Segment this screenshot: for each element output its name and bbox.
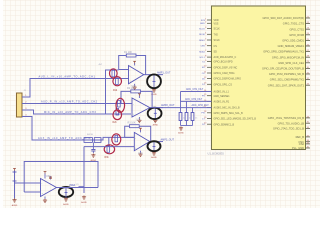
IC U1 right pin 28 (GPIO_SPI0_MISO/PCM_IN) bbox=[272, 55, 310, 59]
test point at U3A output bbox=[65, 188, 68, 198]
inverting input wire of U1B bbox=[121, 103, 132, 105]
IC U1 left pin 15 (GND_SENSE1) bbox=[202, 94, 230, 98]
op-amp U1B V- stub and ground bbox=[137, 117, 141, 123]
IC U1 right pin 26 (GND_SDRAM_VREF1) bbox=[278, 44, 310, 48]
IC U1 left pin 2 (VSS) bbox=[200, 22, 219, 26]
filter capacitor C2 bbox=[185, 101, 188, 125]
ground of filter network bbox=[179, 127, 183, 131]
svg-text:AMP2_OUT: AMP2_OUT bbox=[161, 104, 175, 107]
IC U1 left pin 18 (GPIO_SMPS_SDA_SCL_B) bbox=[201, 111, 243, 115]
IC U1 left pin 14 (AUDIO_IN_L1) bbox=[204, 90, 229, 94]
svg-text:GPIO_CTS1: GPIO_CTS1 bbox=[289, 27, 304, 31]
wire net ADC_CH1 to IC pin 14 bbox=[181, 91, 212, 93]
svg-text:GPIO_SD0_DAT_AUDIO_DOUT(R): GPIO_SD0_DAT_AUDIO_DOUT(R) bbox=[263, 16, 305, 20]
ground under U1C test point bbox=[152, 152, 156, 156]
svg-text:GPIO_PCM_FS/PWM1_SD_B: GPIO_PCM_FS/PWM1_SD_B bbox=[269, 72, 304, 76]
svg-text:GPIO_RX1B: GPIO_RX1B bbox=[289, 33, 304, 37]
connector J1 pin 1 stub bbox=[22, 96, 27, 98]
connector J1 pin 3 stub bbox=[22, 109, 27, 111]
svg-text:GPIO_SDMMC1_B: GPIO_SDMMC1_B bbox=[214, 123, 235, 126]
op-amp U1A triangle bbox=[129, 66, 144, 84]
IC U1 left pin 20 (GPIO_SDMMC1_B) bbox=[202, 123, 234, 127]
svg-text:ADC_CH1_FILT: ADC_CH1_FILT bbox=[186, 88, 204, 91]
svg-text:OS2: OS2 bbox=[299, 142, 305, 146]
feedback wire of U1B bbox=[121, 91, 131, 103]
red highlight ellipse at (116.3,139.4) bbox=[112, 134, 121, 145]
svg-text:SCLK: SCLK bbox=[199, 29, 205, 31]
output wire of U1A bbox=[144, 74, 163, 76]
black highlight ellipse at (66.0,192.0) bbox=[59, 187, 73, 197]
svg-text:AUX_IN_x10_AMP_TO_ADC_CH4: AUX_IN_x10_AMP_TO_ADC_CH4 bbox=[38, 137, 91, 140]
op-amp U1C V- stub and ground bbox=[138, 151, 142, 157]
wire vertical divider column bbox=[23, 183, 25, 192]
svg-text:R1 10K: R1 10K bbox=[124, 51, 132, 54]
ground under divider bbox=[12, 198, 16, 202]
svg-text:ADC_CH2_FILT: ADC_CH2_FILT bbox=[185, 98, 203, 101]
inverting input wire of U1A bbox=[119, 69, 129, 71]
svg-text:GPIO1_CAM_TRIG: GPIO1_CAM_TRIG bbox=[214, 72, 235, 75]
IC U1 left pin 7 (SD) bbox=[199, 50, 217, 54]
IC U1 right pin 22 (GPIO_TXD1_CTS) bbox=[283, 22, 310, 26]
red highlight ellipse at (120.3,105.3) bbox=[116, 98, 125, 112]
feedback wire of U1A bbox=[119, 56, 127, 70]
svg-text:MIC_IN_x20_AMP_TO_ADC_CH3: MIC_IN_x20_AMP_TO_ADC_CH3 bbox=[44, 111, 96, 114]
svg-text:GPIO2_DISP/CAM_GPIO: GPIO2_DISP/CAM_GPIO bbox=[214, 78, 242, 81]
decoupling cap C5 near U3A bbox=[49, 176, 52, 180]
svg-text:AUDIO_MIC_IN_CH3_B: AUDIO_MIC_IN_CH3_B bbox=[214, 107, 240, 110]
svg-text:U1C: U1C bbox=[138, 152, 143, 155]
input resistor R3b of U1C bbox=[107, 146, 110, 153]
filter capacitor C1 bbox=[179, 92, 182, 126]
IC U1 right pin 36 (GPIO_JTAG_TDO_SD1_B) bbox=[273, 127, 310, 131]
wire vertical from bias node down to VREF buffer bbox=[83, 147, 85, 194]
svg-text:AGND: AGND bbox=[63, 203, 69, 206]
ground under C4 bbox=[91, 154, 95, 158]
connector J1 pin 4 stub bbox=[22, 116, 27, 118]
test point connector at U1B output bbox=[154, 108, 157, 119]
op-amp U1B triangle bbox=[132, 98, 150, 117]
svg-text:AUDIO_IN_L1: AUDIO_IN_L1 bbox=[214, 91, 230, 94]
svg-text:SD: SD bbox=[202, 67, 205, 69]
IC U1 left pin 13 (GPIO3_SPI1_CS) bbox=[202, 83, 232, 87]
connector J1 body bbox=[17, 93, 23, 117]
svg-text:AMP3_OUT: AMP3_OUT bbox=[161, 139, 175, 142]
ground under U3A test point bbox=[64, 198, 68, 202]
svg-text:GND: GND bbox=[200, 23, 205, 25]
output wire of U1C bbox=[150, 141, 163, 143]
input resistor R2b of U1B bbox=[116, 109, 119, 116]
svg-text:CS: CS bbox=[214, 45, 218, 48]
svg-text:SDA1: SDA1 bbox=[199, 50, 205, 53]
IC U1 right pin 27 (GPIO_SPI0_CE0/PWM0/AUX_TX1) bbox=[263, 50, 310, 54]
U3A inverting input wire bbox=[24, 182, 40, 184]
IC U1 left pin 4 (TX0) bbox=[199, 33, 218, 37]
tick and label near VREF branch bottom bbox=[76, 184, 84, 186]
ground under VREF branch bbox=[82, 196, 86, 200]
svg-text:GPIO_BCLK/SPD: GPIO_BCLK/SPD bbox=[214, 61, 233, 64]
filter capacitor C3 bbox=[191, 108, 194, 126]
wire net MIC from J1 pin3 to opamp U2B lower input bbox=[27, 110, 132, 114]
IC U1 right pin 25 (GPIO_SD0_CMD1) bbox=[282, 39, 310, 43]
IC U1 left pin 5 (SCLK) bbox=[199, 38, 220, 42]
series resistor R4b on AUX wire bbox=[94, 138, 101, 143]
IC U1 left pin 1 (VDD) bbox=[201, 18, 219, 22]
IC U1 left pin 9 (GPIO_BCLK/SPD) bbox=[202, 60, 233, 64]
IC U1 right pin 24 (GPIO_RX1B) bbox=[289, 33, 310, 37]
input resistor R3a of U1C bbox=[115, 135, 118, 142]
svg-text:GND_SDRAM_VREF1: GND_SDRAM_VREF1 bbox=[278, 44, 305, 48]
svg-text:MISO: MISO bbox=[199, 40, 205, 42]
svg-text:GPIO0_DISP_VSYNC: GPIO0_DISP_VSYNC bbox=[214, 66, 238, 69]
svg-text:GPIO_SPI0_CE0/PWM0/AUX_TX1: GPIO_SPI0_CE0/PWM0/AUX_TX1 bbox=[263, 50, 304, 54]
op-amp U3A V+ stub bbox=[44, 172, 47, 179]
IC U1 right pin 37 (REF_B) bbox=[296, 135, 310, 139]
op-amp U1B V+ stub bbox=[138, 94, 141, 98]
svg-text:R3b: R3b bbox=[105, 157, 110, 159]
connector J1 pin 2 stub bbox=[22, 103, 27, 105]
test point connector at U1C output bbox=[153, 142, 156, 152]
svg-text:R2b: R2b bbox=[113, 122, 118, 124]
svg-text:GPIO_SMPS_SDA_SCL_B: GPIO_SMPS_SDA_SCL_B bbox=[214, 112, 244, 115]
svg-text:GPIO_SPI_CE1/PCM_DOUT/SPI_B: GPIO_SPI_CE1/PCM_DOUT/SPI_B bbox=[262, 67, 304, 71]
svg-text:R2 10K: R2 10K bbox=[127, 87, 135, 90]
svg-text:TX0: TX0 bbox=[214, 33, 219, 36]
svg-text:CK: CK bbox=[202, 73, 206, 75]
red highlight ellipse at (117.2,81.2) bbox=[113, 77, 122, 86]
black highlight ellipse at (154.0,81.3) bbox=[147, 74, 161, 88]
svg-text:U1_BCM2835: U1_BCM2835 bbox=[208, 151, 225, 155]
svg-text:VSS: VSS bbox=[214, 22, 219, 25]
svg-text:AUD_L_IN_x10_AMP_TO_ADC_CH1: AUD_L_IN_x10_AMP_TO_ADC_CH1 bbox=[39, 76, 96, 79]
svg-text:GPIO_SPI0_MISO/PCM_IN: GPIO_SPI0_MISO/PCM_IN bbox=[272, 55, 304, 59]
capacitor C4 to ground near U2C bbox=[91, 142, 95, 153]
divider tap wire to U3A input bbox=[15, 182, 25, 184]
series resistor R4a on AUX wire bbox=[84, 138, 92, 143]
svg-text:REF_B: REF_B bbox=[296, 135, 305, 139]
feedback wire loop of U3A bbox=[24, 162, 98, 188]
svg-text:AMP1_OUT: AMP1_OUT bbox=[157, 72, 171, 75]
svg-text:SCLK: SCLK bbox=[214, 39, 221, 42]
wire bias to U2C lower input bbox=[84, 146, 134, 148]
op-amp U1C V+ stub bbox=[139, 128, 142, 132]
svg-text:GPIO_JTAG_TDO_SD1_B: GPIO_JTAG_TDO_SD1_B bbox=[273, 127, 304, 131]
svg-text:AUDIO_IN_R1: AUDIO_IN_R1 bbox=[214, 101, 230, 104]
IC U1 right pin 23 (GPIO_CTS1) bbox=[289, 27, 310, 31]
feedback resistor R3 of U1C bbox=[130, 125, 140, 128]
svg-text:SD: SD bbox=[214, 51, 218, 54]
red highlight ellipse at (113.3,73.4) bbox=[110, 69, 118, 78]
wire vertical bias bus x=105.5 bbox=[105, 70, 107, 115]
svg-text:GND_SPI0_CLK_CE1: GND_SPI0_CLK_CE1 bbox=[278, 61, 304, 65]
inverting input wire of U1C bbox=[125, 136, 135, 138]
input resistor R2a of U1B bbox=[118, 101, 121, 108]
op-amp U3A V- ground bbox=[43, 197, 47, 203]
IC U1 left pin 11 (GPIO1_CAM_TRIG) bbox=[202, 71, 235, 75]
IC U1 right pin 30 (GPIO_SPI_CE1/PCM_DOUT/SPI_B) bbox=[262, 67, 310, 71]
op-amp U1A V- stub and ground bbox=[133, 84, 137, 90]
svg-text:GPIO_SD1_CMD/PWM1/TX1: GPIO_SD1_CMD/PWM1/TX1 bbox=[270, 78, 305, 82]
op-amp U1C triangle bbox=[134, 132, 149, 150]
svg-text:VREF: VREF bbox=[69, 184, 76, 187]
wire net AUX from J1 pin4 to opamp U2C input bbox=[27, 117, 135, 141]
IC U1 right pin 29 (GND_SPI0_CLK_CE1) bbox=[278, 61, 310, 65]
input resistor R1b of U1A bbox=[116, 78, 119, 85]
svg-text:GPIO_JTAG_TRST/SD1_D3_B: GPIO_JTAG_TRST/SD1_D3_B bbox=[268, 116, 305, 120]
resistor divider column R5 bbox=[13, 171, 17, 199]
svg-text:GPIO_SD1_LED_MMC83_SD_DAT3_B: GPIO_SD1_LED_MMC83_SD_DAT3_B bbox=[214, 118, 257, 121]
feedback resistor R1 of U1A bbox=[126, 54, 136, 57]
svg-text:1n: 1n bbox=[183, 117, 185, 119]
svg-text:AGND: AGND bbox=[178, 132, 184, 135]
U3A non-inverting input wire bbox=[24, 191, 40, 193]
svg-text:SCL1: SCL1 bbox=[199, 57, 205, 59]
IC U1 left pin 3 (SCLK) bbox=[199, 27, 220, 31]
svg-text:AGND: AGND bbox=[81, 201, 87, 204]
svg-text:SCLK: SCLK bbox=[214, 28, 221, 31]
red highlight ellipse at (109.4,149.3) bbox=[104, 145, 114, 154]
filter ground bus wire bbox=[181, 125, 193, 127]
svg-text:GPIO_SD0_CMD1: GPIO_SD0_CMD1 bbox=[282, 39, 304, 43]
svg-text:1n: 1n bbox=[189, 117, 191, 119]
V+ symbol atop divider bbox=[13, 169, 16, 171]
wire net AUD_L from J1 pin1 to opamp U2A input bbox=[27, 79, 129, 98]
IC U1 right pin 32 (GPIO_SD1_CMD/PWM1/TX1) bbox=[270, 78, 310, 82]
IC U1 left pin 12 (GPIO2_DISP/CAM_GPIO) bbox=[202, 77, 241, 81]
IC U1 left pin 19 (GPIO_SD1_LED_MMC83_SD_DAT3_B) bbox=[202, 117, 257, 121]
wire from AUX input node down to bias rail bbox=[108, 137, 110, 146]
svg-text:AGND: AGND bbox=[12, 204, 18, 207]
IC U1 right pin 40 (PLL_GND) bbox=[292, 146, 310, 150]
svg-text:GPIO_SD1_DAT_SPKR_OUT1: GPIO_SD1_DAT_SPKR_OUT1 bbox=[268, 83, 305, 87]
IC U1 right pin 21 (GPIO_SD0_DAT_AUDIO_DOUT(R)) bbox=[263, 16, 310, 20]
svg-text:AGND: AGND bbox=[153, 124, 159, 127]
svg-text:R4 1K: R4 1K bbox=[87, 134, 94, 136]
black highlight ellipse at (154.0,146.2) bbox=[148, 141, 161, 151]
red highlight ellipse at (117.3,114.8) bbox=[113, 110, 122, 120]
svg-text:GPIO3_SPI1_CS: GPIO3_SPI1_CS bbox=[214, 83, 233, 86]
op-amp U1A V+ stub bbox=[133, 61, 136, 65]
svg-text:PLL_GND: PLL_GND bbox=[292, 146, 304, 150]
svg-text:1n: 1n bbox=[195, 117, 197, 119]
wire net AUD_R from J1 pin2 to opamp U2B input bbox=[27, 103, 132, 105]
svg-text:AUD_R_IN_x10_AMP_TO_ADC_CH2: AUD_R_IN_x10_AMP_TO_ADC_CH2 bbox=[41, 101, 98, 104]
input resistor R1a of U1A bbox=[112, 70, 115, 77]
svg-text:ADC_CH3_FILT: ADC_CH3_FILT bbox=[192, 104, 210, 107]
IC U1 right pin 35 (GPIO_TDI_AUDIO_LB) bbox=[278, 121, 310, 125]
IC U1 right pin 31 (GPIO_PCM_FS/PWM1_SD_B) bbox=[269, 72, 310, 76]
IC U1 right pin 38 (OSC) bbox=[298, 140, 310, 144]
U3A output wire bbox=[57, 187, 99, 189]
ground under U1B test point bbox=[153, 119, 157, 123]
black highlight ellipse at (154.6,113.4) bbox=[148, 108, 162, 119]
feedback resistor R2 of U1B bbox=[131, 90, 141, 93]
IC U1 right pin 33 (GPIO_SD1_DAT_SPKR_OUT1) bbox=[268, 83, 310, 87]
op-amp U3A triangle bbox=[41, 179, 57, 197]
output wire of U1B bbox=[150, 107, 163, 109]
IC U1 left pin 6 (CS) bbox=[201, 44, 218, 48]
IC U1 left pin 17 (AUDIO_MIC_IN_CH3_B) bbox=[204, 106, 240, 110]
svg-text:AUD_MCLK/GPIO_C: AUD_MCLK/GPIO_C bbox=[214, 56, 237, 59]
IC U1 left pin 8 (AUD_MCLK/GPIO_C) bbox=[199, 56, 236, 60]
feedback wire of U1C bbox=[125, 126, 130, 137]
svg-text:R1b: R1b bbox=[113, 90, 118, 92]
test point connector at U1A output bbox=[153, 75, 156, 89]
IC U1 left pin 10 (GPIO0_DISP_VSYNC) bbox=[202, 66, 238, 70]
svg-text:U3A: U3A bbox=[46, 175, 51, 178]
IC U1 right pin 39 (OS2) bbox=[299, 142, 310, 146]
svg-text:R3 10K: R3 10K bbox=[128, 122, 136, 125]
IC U1 left pin 16 (AUDIO_IN_R1) bbox=[204, 100, 230, 104]
svg-text:GPIO_TDI_AUDIO_LB: GPIO_TDI_AUDIO_LB bbox=[278, 121, 305, 125]
wire net ADC_CH2 to IC pin 16 bbox=[181, 100, 212, 102]
svg-text:GPIO_TXD1_CTS: GPIO_TXD1_CTS bbox=[283, 22, 304, 26]
IC U1 right pin 34 (GPIO_JTAG_TRST/SD1_D3_B) bbox=[268, 116, 310, 120]
svg-text:GND_SENSE1: GND_SENSE1 bbox=[214, 95, 231, 98]
wire net ADC_CH3 from U2B output to IC pin 17 bbox=[150, 107, 212, 109]
svg-text:MOSI: MOSI bbox=[199, 34, 205, 36]
svg-text:AGND: AGND bbox=[151, 156, 157, 159]
svg-text:U1B: U1B bbox=[136, 119, 141, 122]
ground under U1A test point bbox=[152, 89, 156, 93]
wire from bias bus to U2A inverting input bbox=[106, 69, 119, 71]
IC U1 BCM audio codec body bbox=[212, 6, 306, 150]
